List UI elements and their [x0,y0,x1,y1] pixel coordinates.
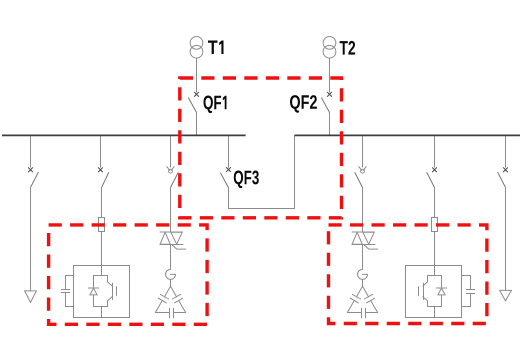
wire feeder SVC-right drop [362,136,364,167]
delta capacitor bank right [347,286,377,317]
wire fuse to converter [101,232,103,266]
switch F3 [427,173,435,218]
wire valve to reactor right [362,245,364,270]
wire tie bottom [229,208,295,210]
breaker QF2 [322,98,330,135]
fuse FU2 [432,218,438,232]
wire feeder F2 drop [100,136,102,167]
wire T1 to QF1 [196,58,198,92]
capacitor C1 [61,276,73,307]
highlight box SVC left [49,225,208,324]
wire feeder F1 drop [30,136,32,167]
node bottom rail right [428,306,442,308]
node bottom rail left [94,306,108,308]
label QF3 [234,171,259,189]
gate lead left [172,245,186,249]
delta capacitor bank left [155,286,185,317]
highlight box SVC right [329,225,487,324]
reactor loop left [166,269,176,279]
gate lead right [364,245,378,249]
wire tie riser to right bus [294,136,296,209]
diode D1 [88,276,98,307]
contact mark F2 [98,168,102,172]
converter unit box right [406,266,462,318]
wire feeder SVC-left drop [170,136,172,167]
switch SVC-right [355,173,363,232]
wire feeder F4 drop [505,136,507,167]
breaker QF1 [189,98,197,135]
wire left bus drop QF3 [228,136,230,167]
switch F2 [102,173,109,218]
bus left [2,134,246,136]
load arrow F1 [25,291,37,303]
capacitor C2 [462,276,475,307]
switch SVC-left [171,173,179,232]
wire reactor to capacitor bank right [362,279,364,286]
reactor loop right [358,269,368,279]
wire converter entry right [434,266,436,276]
thyristor valve right (anti-parallel pair) [352,232,375,245]
wire converter exit [101,307,103,318]
wire T2 to QF2 [329,58,331,92]
transistor V2 (IGBT) [419,276,428,307]
fuse FU1 [99,218,105,232]
label QF1 [204,96,227,114]
transformer T2 [323,37,336,59]
contact mark QF2 [327,92,331,96]
wire reactor to capacitor bank left [170,279,172,286]
label T1 [208,41,224,55]
contact mark QF1 [194,92,198,96]
breaker QF3 [221,173,229,208]
switch F4 [498,173,506,291]
contact mark F3 [432,168,436,172]
bus right [294,134,520,136]
load arrow F4 [500,290,512,300]
switch F1 [31,173,39,291]
wire fuse to converter right [434,232,436,266]
label T2 [340,41,356,55]
highlight box tie QF1-QF2-QF3 [180,78,342,218]
node top rail left [94,275,108,277]
contact mark F4 [503,168,507,172]
wire converter entry [101,266,103,276]
thyristor valve left (anti-parallel pair) [160,232,183,245]
transformer T1 [190,37,203,59]
converter unit box left [74,266,130,318]
contact mark QF3 [226,168,230,172]
contact mark F1 [28,168,32,172]
diode D2 [436,276,446,307]
transistor V1 (IGBT) [108,276,117,307]
node top rail right [428,275,442,277]
label QF2 [290,95,317,113]
wire feeder F3 drop [434,136,436,167]
wire converter exit right [434,307,436,318]
contactor contact right (chevron and circle) [359,167,366,174]
contactor contact left (chevron and circle) [167,167,174,174]
wire valve to reactor left [170,245,172,270]
